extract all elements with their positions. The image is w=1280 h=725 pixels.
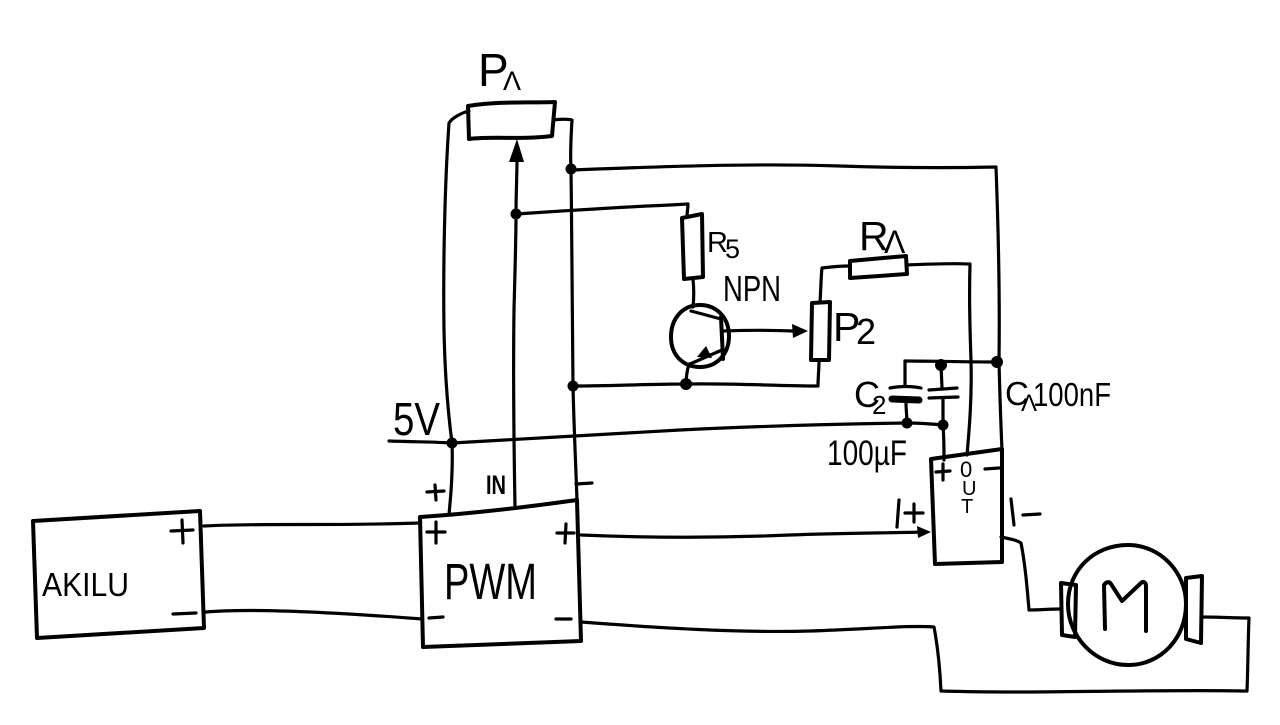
wire battery + to PWM [204, 523, 420, 526]
motor M1 circle [1068, 545, 1186, 665]
wire C1 top lead [941, 365, 942, 388]
battery - mark [173, 613, 196, 614]
potentiometer P2 body [811, 302, 830, 360]
junction node 5V rail / C2 bottom [902, 418, 913, 429]
OUT box - mark [985, 468, 999, 469]
wire P1 right lead down to PWM - [553, 119, 577, 501]
wire R5 to collector [691, 279, 695, 307]
svg-text:2: 2 [872, 390, 886, 420]
svg-text:Λ: Λ [884, 224, 906, 260]
svg-text:PWM: PWM [444, 553, 537, 610]
box AKILU battery [33, 511, 204, 638]
wire PWM + output to OUT box [581, 532, 925, 537]
PWM + mark above box [427, 485, 444, 500]
wire C2 bottom lead [906, 402, 907, 423]
output wire arrowhead [917, 526, 931, 538]
svg-text:Λ: Λ [503, 66, 521, 96]
resistor R1 body [850, 256, 907, 278]
junction node 5V rail / C1 bottom [938, 420, 949, 431]
PWM inside top-right + [557, 524, 574, 543]
wire P2 top to R1 left [820, 266, 849, 302]
battery + mark [171, 520, 193, 543]
R1 label [859, 213, 906, 260]
transistor Q1 base bar [721, 317, 723, 359]
wire battery - to PWM [206, 610, 422, 619]
wire OUT - to motor left brush [1001, 537, 1061, 610]
wiper arrowhead [509, 139, 524, 162]
motor M letter [1104, 582, 1146, 631]
junction node 5V / P1 left [447, 438, 458, 449]
junction node cap rail / right vertical [991, 356, 1003, 368]
wire P1 left lead to 5V node and PWM + [444, 111, 469, 514]
capacitor C2 bottom plate [892, 399, 919, 400]
wire emitter lead to ground rail [686, 364, 689, 384]
svg-text:5V: 5V [393, 393, 440, 445]
svg-text:2: 2 [856, 311, 876, 352]
capacitor C2 top plate [890, 387, 921, 389]
PWM inside top-left + [427, 522, 445, 543]
wire P1 wiper to PWM IN [514, 158, 517, 507]
junction node cap rail / C1 top [935, 359, 947, 371]
svg-text:5: 5 [725, 234, 740, 264]
C1 label 100nF [1005, 375, 1111, 417]
junction node emitter / lower rail [680, 378, 692, 390]
transistor Q1 emitter stroke [690, 350, 722, 364]
base wire arrowhead [792, 324, 808, 338]
PWM inside bottom-left - [429, 617, 443, 618]
wire branch to R5 [516, 204, 688, 217]
wire top rail from P1 right to right side vertical [571, 165, 1002, 450]
wire P2 bottom lead [818, 361, 819, 386]
potentiometer P1 body [468, 102, 555, 139]
motor right brush [1186, 576, 1202, 643]
wire C1 bottom lead [941, 398, 944, 425]
svg-text:100nF: 100nF [1033, 376, 1111, 413]
potentiometer P1 label [478, 44, 521, 96]
box OUT [931, 449, 1002, 564]
junction node P1 right leg / lower rail [568, 381, 579, 392]
svg-text:AKILU: AKILU [42, 566, 129, 603]
PWM - mark above box [576, 483, 592, 484]
resistor R5 body [682, 214, 703, 279]
wire base to P2 wiper [723, 329, 793, 333]
svg-text:NPN: NPN [723, 268, 781, 309]
svg-text:T: T [961, 496, 973, 518]
wire lower rail from P1 right leg to P2 bottom [573, 384, 817, 386]
transistor Q1 NPN circle [671, 305, 729, 367]
capacitor C1 plates [929, 388, 958, 398]
svg-text:100µF: 100µF [827, 434, 907, 473]
wire R1 right lead down to OUT 0 terminal [906, 264, 971, 455]
junction node P1 right / top rail [566, 164, 577, 175]
box PWM [420, 500, 581, 647]
motor left brush [1061, 583, 1076, 637]
svg-text:IN: IN [486, 470, 506, 500]
junction node wiper / R5 branch [511, 209, 522, 220]
PWM inside bottom-right - [556, 617, 571, 620]
R5 label [707, 227, 740, 264]
OUT box + mark [936, 464, 950, 480]
label 1+ [897, 500, 923, 527]
label 1- [1011, 499, 1040, 525]
P2 label [833, 304, 876, 352]
C2 label [854, 374, 886, 420]
wire 5V rail [389, 423, 943, 443]
wire C2 top lead [903, 361, 906, 386]
wire PWM - return to motor [581, 617, 1249, 692]
wire to OUT + terminal [943, 425, 944, 460]
transistor Q1 collector stroke [691, 311, 721, 319]
wire capacitor top rail [905, 361, 996, 362]
transistor Q1 emitter arrowhead [697, 346, 712, 358]
